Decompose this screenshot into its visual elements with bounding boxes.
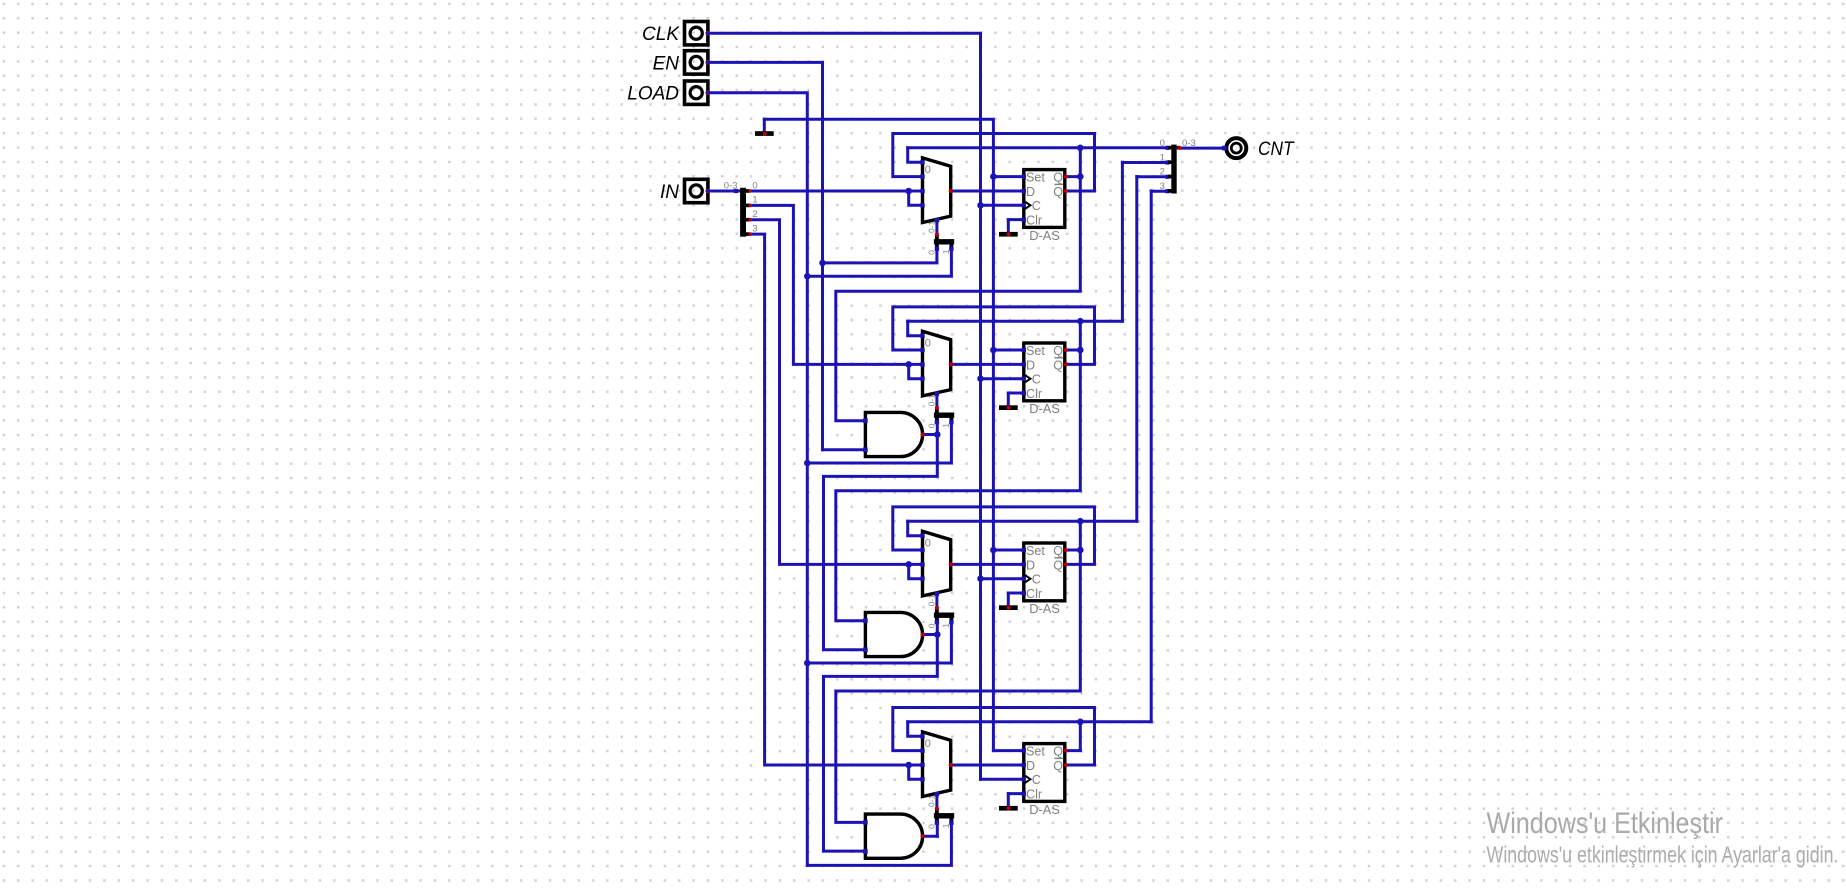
label FF4 Clr	[1026, 788, 1042, 802]
label IN	[660, 182, 679, 203]
svg-text:0-1: 0-1	[927, 220, 937, 233]
svg-text:Q: Q	[1053, 745, 1063, 759]
label FF2 D	[1026, 358, 1035, 372]
label FF3 Qbar	[1053, 558, 1063, 573]
svg-text:Clr: Clr	[1026, 587, 1042, 601]
label FF3 D	[1026, 558, 1035, 572]
mux U2 pads	[920, 334, 953, 396]
mux U1	[923, 158, 951, 223]
wire AND2 out chain	[824, 418, 941, 650]
splitter S5 anchor	[935, 806, 939, 810]
node N1A (mux1 data split)	[905, 188, 922, 206]
wire CLK net	[708, 33, 1024, 779]
label FF2 Q	[1053, 344, 1063, 358]
svg-text:Q: Q	[1053, 185, 1063, 199]
and gate A1	[865, 412, 922, 456]
splitter S1 leg dots	[749, 189, 753, 236]
wire IN to splitter	[708, 189, 740, 193]
svg-text:1: 1	[941, 423, 951, 428]
wire Clr2	[1008, 393, 1024, 406]
svg-text:0-1: 0-1	[927, 394, 937, 407]
label FF4 D-AS	[1029, 802, 1060, 817]
svg-text:Clr: Clr	[1026, 788, 1042, 802]
splitter S5 pads	[935, 821, 954, 825]
mux U2	[923, 331, 951, 396]
FF4 pads	[1022, 748, 1069, 795]
svg-text:3: 3	[1160, 181, 1165, 192]
mux U3 pads	[920, 534, 953, 596]
label S5 0-1	[927, 794, 937, 807]
label FF3 Clr	[1026, 587, 1042, 601]
label FF3 Q	[1053, 544, 1063, 558]
wire Clr4	[1008, 794, 1024, 807]
and gate A3 pads	[863, 820, 925, 854]
svg-text:C: C	[1032, 373, 1041, 387]
wire AND3 out chain	[824, 618, 941, 851]
flip-flop FF3 (D-AS)	[1024, 543, 1065, 601]
svg-text:1: 1	[1160, 152, 1165, 163]
svg-text:0: 0	[927, 623, 937, 628]
ground G1 (top)	[755, 131, 774, 136]
svg-text:0-3: 0-3	[1182, 138, 1196, 149]
wire CNT leg2 stub	[1137, 175, 1172, 179]
wire CNT splitter to CNT pin	[1178, 146, 1227, 151]
svg-text:Q: Q	[1053, 544, 1063, 558]
label FF1 Set	[1026, 171, 1045, 185]
svg-text:0: 0	[927, 824, 937, 829]
wire MUX4 select	[935, 794, 938, 809]
svg-text:D-AS: D-AS	[1029, 401, 1060, 416]
ground G4	[999, 605, 1018, 610]
label S3 legs	[927, 423, 951, 429]
svg-text:0-3: 0-3	[724, 180, 738, 191]
wire MUX2 out to D	[951, 363, 1024, 366]
label CLK	[642, 24, 680, 45]
splitter S2 (select 0-1)	[934, 235, 954, 247]
wire Q2 net	[836, 177, 1137, 823]
svg-text:Q: Q	[1053, 344, 1063, 358]
label S1 0-3	[724, 180, 738, 191]
node N4A (mux4 data split)	[905, 762, 922, 780]
label S5 legs	[927, 823, 951, 829]
svg-text:D: D	[1026, 759, 1035, 773]
wire IN bit3 to mux4	[750, 234, 908, 765]
svg-text:D-AS: D-AS	[1029, 601, 1060, 616]
input pin IN	[685, 179, 711, 202]
svg-text:0: 0	[927, 423, 937, 428]
splitter S2 pads	[935, 247, 954, 251]
input pin EN	[685, 51, 711, 74]
wire MUX1 select	[935, 220, 938, 235]
svg-text:D: D	[1026, 358, 1035, 372]
label FF2 C	[1032, 373, 1041, 387]
label LOAD	[627, 84, 679, 105]
input pin LOAD	[685, 81, 711, 104]
wire MUX3 select	[935, 593, 938, 608]
label S4 0-1	[927, 594, 937, 607]
label FF1 Qbar	[1053, 184, 1063, 199]
svg-text:Q: Q	[1053, 358, 1063, 372]
svg-text:0-1: 0-1	[927, 794, 937, 807]
mux U4	[923, 732, 951, 797]
node N3A (mux3 data split)	[905, 561, 922, 579]
svg-text:Set: Set	[1026, 344, 1045, 358]
svg-text:CNT: CNT	[1258, 139, 1295, 160]
svg-text:Set: Set	[1026, 745, 1045, 759]
svg-text:1: 1	[941, 823, 951, 828]
svg-text:Windows'u Etkinleştir: Windows'u Etkinleştir	[1487, 807, 1724, 840]
label FF2 Clr	[1026, 387, 1042, 401]
label FF3 D-AS	[1029, 601, 1060, 616]
label S3 0-1	[927, 394, 937, 407]
wire Q1 net	[836, 162, 1123, 621]
svg-text:1: 1	[941, 249, 951, 254]
wire MUX1 out to D	[951, 190, 1024, 193]
splitter S3 pads	[935, 420, 954, 424]
splitter S4 anchor	[935, 606, 939, 610]
and gate A2	[865, 612, 922, 656]
wire EN net	[708, 62, 937, 449]
splitter S4 (select 0-1)	[934, 609, 954, 621]
label S2 legs	[927, 249, 951, 255]
label U2 0	[925, 337, 931, 349]
and gate A3	[865, 814, 922, 858]
FF1 pads	[1022, 174, 1069, 221]
label FF1 D	[1026, 185, 1035, 199]
mux U4 pads	[920, 734, 953, 796]
svg-text:LOAD: LOAD	[627, 84, 679, 105]
svg-text:0: 0	[927, 250, 937, 255]
svg-text:C: C	[1032, 573, 1041, 587]
splitter S4 pads	[935, 620, 954, 624]
and gate A1 pads	[863, 418, 925, 452]
label FF1 D-AS	[1029, 228, 1060, 243]
input pin CLK	[685, 22, 711, 45]
label S6 legs	[1160, 138, 1165, 192]
label FF3 Set	[1026, 544, 1045, 558]
splitter S6 (CNT 0-3)	[1168, 145, 1180, 194]
svg-text:CLK: CLK	[642, 24, 680, 45]
FF2 pads	[1022, 348, 1069, 395]
wire Q1bar net	[893, 307, 1095, 365]
wire MUX2 select	[935, 393, 938, 408]
wire Q3 net	[908, 191, 1151, 751]
wire Clr1	[1008, 220, 1024, 233]
svg-text:Q: Q	[1053, 759, 1063, 773]
wire CNT leg1 stub	[1122, 160, 1171, 164]
output pin CNT	[1226, 138, 1246, 158]
label FF4 Set	[1026, 745, 1045, 759]
svg-text:Clr: Clr	[1026, 214, 1042, 228]
wire Q0bar net	[893, 134, 1095, 192]
svg-text:0: 0	[925, 164, 931, 176]
mux U1 pads	[920, 160, 953, 222]
splitter S2 anchor	[935, 232, 939, 236]
wire IN bit2 to mux3	[750, 220, 908, 565]
watermark line2	[1487, 842, 1839, 868]
label FF1 C	[1032, 199, 1041, 213]
label U1 0	[925, 164, 931, 176]
svg-text:D-AS: D-AS	[1029, 802, 1060, 817]
and gate A2 pads	[863, 618, 925, 652]
svg-text:Windows'u etkinleştirmek için: Windows'u etkinleştirmek için Ayarlar'a …	[1487, 842, 1839, 868]
svg-text:1: 1	[941, 623, 951, 628]
svg-text:0: 0	[925, 337, 931, 349]
wire Set net (ground to Set pins)	[764, 119, 1024, 750]
mux U3	[923, 531, 951, 596]
watermark line1	[1487, 807, 1724, 840]
splitter S3 anchor	[935, 406, 939, 410]
ground G5	[999, 806, 1018, 811]
splitter S3 (select 0-1)	[934, 409, 954, 421]
svg-text:Set: Set	[1026, 544, 1045, 558]
wire AND4 out chain	[923, 819, 938, 837]
wire IN bit0 to mux1	[750, 190, 908, 193]
label FF4 D	[1026, 759, 1035, 773]
label S4 legs	[927, 623, 951, 629]
label FF2 Qbar	[1053, 358, 1063, 373]
label S1 legs	[752, 180, 757, 234]
svg-text:IN: IN	[660, 182, 679, 203]
label FF1 Clr	[1026, 214, 1042, 228]
label FF2 Set	[1026, 344, 1045, 358]
wire CNT leg3 stub	[1151, 189, 1171, 193]
svg-text:0-1: 0-1	[927, 594, 937, 607]
svg-text:Q: Q	[1053, 171, 1063, 185]
wire LOAD net	[708, 93, 952, 866]
wire MUX3 out to D	[951, 563, 1024, 566]
ground G3	[999, 405, 1018, 410]
svg-text:Clr: Clr	[1026, 387, 1042, 401]
label U3 0	[925, 537, 931, 549]
flip-flop FF1 (D-AS)	[1024, 170, 1065, 228]
label FF4 Q	[1053, 745, 1063, 759]
svg-text:D: D	[1026, 558, 1035, 572]
wire IN bit1 to mux2	[750, 205, 908, 364]
flip-flop FF4 (D-AS)	[1024, 744, 1065, 802]
svg-text:Set: Set	[1026, 171, 1045, 185]
label U4 0	[925, 738, 931, 750]
label FF4 C	[1032, 773, 1041, 787]
svg-text:C: C	[1032, 773, 1041, 787]
node N2A (mux2 data split)	[905, 361, 922, 379]
splitter S5 (select 0-1)	[934, 809, 954, 821]
svg-text:0: 0	[925, 537, 931, 549]
svg-text:C: C	[1032, 199, 1041, 213]
wire Clr3	[1008, 593, 1024, 606]
label S6 0-3	[1182, 138, 1196, 149]
svg-text:2: 2	[1160, 167, 1165, 178]
ground G2	[999, 232, 1018, 237]
label FF1 Q	[1053, 171, 1063, 185]
svg-text:0: 0	[1160, 138, 1165, 149]
wire MUX4 out to D	[951, 764, 1024, 767]
label FF4 Qbar	[1053, 758, 1063, 773]
wire Q0 net	[836, 145, 1172, 421]
label FF2 D-AS	[1029, 401, 1060, 416]
wire Q3bar net	[893, 708, 1095, 766]
splitter S1 (IN 0-3)	[740, 188, 749, 237]
svg-text:0: 0	[925, 738, 931, 750]
svg-text:D-AS: D-AS	[1029, 228, 1060, 243]
wire Q2bar net	[893, 507, 1095, 565]
label CNT	[1258, 139, 1295, 160]
label FF3 C	[1032, 573, 1041, 587]
label EN	[653, 53, 680, 74]
svg-text:EN: EN	[653, 53, 680, 74]
label S2 0-1	[927, 220, 937, 233]
flip-flop FF2 (D-AS)	[1024, 343, 1065, 401]
FF3 pads	[1022, 548, 1069, 595]
svg-text:D: D	[1026, 185, 1035, 199]
svg-text:Q: Q	[1053, 558, 1063, 572]
